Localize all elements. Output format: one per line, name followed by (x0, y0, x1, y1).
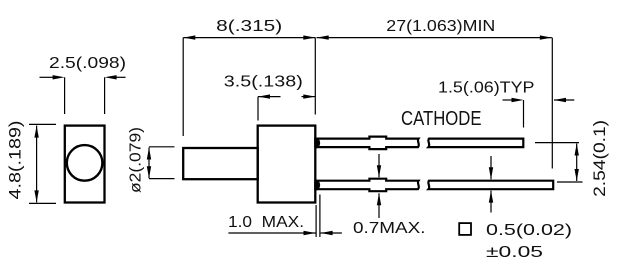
svg-text:27(1.063)MIN: 27(1.063)MIN (386, 18, 495, 35)
svg-text:ø2(.079): ø2(.079) (127, 127, 144, 193)
svg-text:3.5(.138): 3.5(.138) (224, 73, 303, 90)
svg-text:0.5(0.02): 0.5(0.02) (486, 222, 572, 239)
svg-text:1.5(.06)TYP: 1.5(.06)TYP (438, 80, 535, 97)
svg-text:2.54(0.1): 2.54(0.1) (591, 120, 609, 197)
svg-text:8(.315): 8(.315) (216, 18, 282, 35)
svg-text:2.5(.098): 2.5(.098) (49, 55, 126, 72)
svg-text:CATHODE: CATHODE (401, 108, 482, 130)
svg-text:±0.05: ±0.05 (486, 244, 543, 261)
svg-text:1.0 MAX.: 1.0 MAX. (228, 214, 304, 231)
svg-text:4.8(.189): 4.8(.189) (7, 121, 25, 200)
svg-text:0.7MAX.: 0.7MAX. (353, 220, 426, 237)
